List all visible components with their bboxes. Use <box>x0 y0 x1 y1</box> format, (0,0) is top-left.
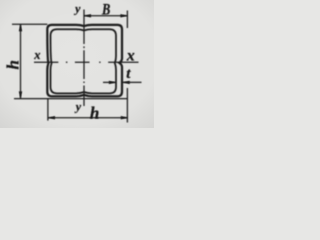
square tube inner contour <box>51 29 117 93</box>
svg-text:x: x <box>126 47 135 64</box>
arrow B right <box>120 14 127 17</box>
arrow h-left down <box>19 91 22 98</box>
x axis centerline <box>34 61 139 63</box>
arrow t inner (points right) <box>109 81 116 84</box>
dim h bottom line <box>48 117 128 119</box>
dim h left: vertical dimension line <box>20 24 22 98</box>
svg-text:h: h <box>4 60 23 69</box>
svg-text:h: h <box>90 103 99 122</box>
arrow h-left up <box>19 24 22 31</box>
paper background <box>0 0 154 128</box>
dim t leader inside <box>103 81 116 83</box>
dim t leader outside <box>123 81 142 83</box>
svg-text:B: B <box>101 1 111 19</box>
bottom extension line (long) <box>14 98 128 100</box>
dim h left top extension line <box>12 23 47 25</box>
paper vignette <box>0 0 1 1</box>
extension line bottom-left corner <box>47 99 49 121</box>
square tube outer contour <box>47 25 122 96</box>
dim B top line <box>84 15 127 17</box>
y axis centerline <box>83 10 85 107</box>
arrow h-bottom right <box>121 116 128 119</box>
extension line right bottom (for h) <box>126 88 128 123</box>
arrow B left <box>84 14 91 17</box>
arrow t outer (points left) <box>123 81 130 84</box>
svg-text:y: y <box>74 99 82 113</box>
svg-text:x: x <box>33 48 40 62</box>
arrow h-bottom left <box>48 116 55 119</box>
extension line right top (for B) <box>126 11 128 29</box>
svg-text:y: y <box>73 1 81 15</box>
